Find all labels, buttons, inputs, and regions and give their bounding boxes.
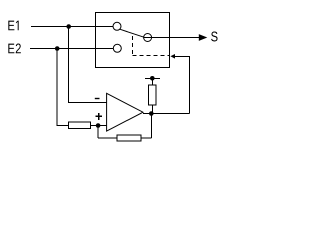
switch contact E1 circle [113,22,121,30]
arrowhead S output [199,34,208,41]
minus sign inverting input [95,98,100,99]
wire E1 horizontal [31,26,113,28]
wire control loop vertical [188,56,190,113]
wire R3 to output node [151,105,153,113]
wire E1 vertical to inverting input [68,27,70,103]
junction dot plus node [96,123,101,128]
wire supply bar to R3 [151,78,153,85]
wire feedback bottom right segment [141,137,151,139]
wire E2 horizontal [30,48,113,50]
switch common contact circle [144,34,152,42]
wire R1 to plus node [90,125,106,127]
resistor R3 (pull-up, vertical) [148,85,156,105]
switch box [96,12,170,67]
wire feedback vertical down [150,114,152,139]
wire op-amp output [143,113,189,115]
wire feedback bottom left segment [98,137,117,139]
dashed control linkage horizontal [133,55,170,57]
op-amp U1 triangle [107,93,143,131]
resistor R1 (non-inverting input series) [69,122,91,128]
node E1 label [8,21,18,31]
junction dot output node [149,111,154,116]
node S label [211,32,217,42]
supply tick bar [145,77,160,79]
node E2 label [8,44,21,54]
wire control loop horizontal [175,55,190,57]
plus sign non-inverting input [95,113,102,120]
junction dot on supply bar [150,76,155,81]
wire to R1 left [57,125,69,127]
dashed control linkage vertical [132,36,134,56]
arrowhead control into switch box [170,54,175,59]
switch blade E1 to common [120,29,144,37]
switch contact E2 circle [113,44,121,52]
wire E2 vertical to R1 [56,49,58,126]
junction dot on E2 wire [55,46,60,51]
resistor R2 (feedback) [117,135,141,141]
wire common contact to output S [144,37,200,39]
wire feedback up to plus node [97,126,99,139]
wire inverting input horizontal [68,102,106,104]
junction dot on E1 wire [66,24,71,29]
